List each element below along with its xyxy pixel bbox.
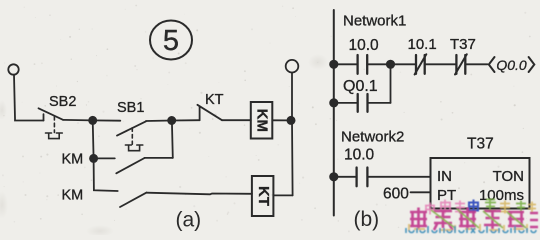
wire contact I0.1 to contact T37 [425, 63, 457, 65]
contact I0.0 bars [358, 55, 368, 74]
watermark [406, 200, 538, 234]
terminal left [8, 64, 18, 74]
node D junction [90, 155, 97, 162]
wire SB1 to node B [146, 120, 172, 123]
wire rung1 to contact I0.0 [334, 63, 358, 65]
SB1 pushbutton actuator [125, 145, 142, 151]
wire node E to contact I0.1 [391, 63, 417, 65]
ladder left power rail [333, 10, 335, 216]
node rung1 junction [330, 61, 337, 68]
contact KM2 blade [120, 193, 147, 207]
wire branch up to node E [390, 64, 392, 103]
svg-text:(a): (a) [176, 209, 202, 232]
coil KT box [252, 176, 274, 216]
timer T37 box [431, 158, 530, 209]
wire KT contact to coil KM [222, 119, 251, 121]
svg-text:600: 600 [383, 186, 409, 203]
wire from left terminal [14, 75, 44, 121]
wire contact T37 to coil Q0.0 [465, 63, 487, 65]
contact KM1 blade [116, 158, 144, 173]
svg-text:T37: T37 [467, 136, 494, 153]
svg-text:Q0.0: Q0.0 [496, 57, 527, 73]
coil Q0.0 [489, 57, 535, 73]
svg-text:KM: KM [254, 109, 271, 132]
svg-text:(b): (b) [354, 208, 380, 231]
svg-text:KM: KM [62, 188, 84, 204]
wire node B to KT contact [172, 119, 200, 121]
contact I0.1 NC slash [415, 54, 427, 74]
wire contact Q0.1 right [368, 102, 391, 104]
svg-text:T37: T37 [450, 36, 476, 53]
node C junction [287, 117, 294, 124]
svg-text:Network1: Network1 [343, 13, 406, 30]
SB2 pushbutton actuator [46, 133, 63, 139]
contact Q0.1 bars [358, 94, 368, 112]
contact I0.1 NC bars [416, 55, 425, 74]
wire 600 to PT [411, 191, 431, 193]
svg-text:SB2: SB2 [49, 94, 76, 110]
svg-text:KT: KT [205, 92, 224, 108]
svg-text:KT: KT [255, 186, 272, 206]
node rung2 junction [330, 173, 337, 180]
wire contact I0.0 to timer T37 IN [367, 176, 430, 178]
contact I0.0 network2 bars [357, 168, 368, 187]
contact T37 NC slash [455, 54, 467, 74]
svg-text:10.1: 10.1 [408, 36, 437, 53]
SB2 actuator dashed link [53, 117, 55, 133]
wire coil KM to node C [272, 119, 291, 121]
svg-text:10.0: 10.0 [344, 147, 375, 164]
svg-text:10.0: 10.0 [349, 37, 380, 54]
wire right rail [291, 73, 294, 196]
node rung1b junction [330, 99, 337, 106]
contact SB1 blade [117, 121, 146, 135]
wire rung2 to contact I0.0 [334, 176, 357, 178]
contact T37 NC bars [456, 55, 465, 74]
node E junction [387, 61, 394, 68]
wire KM1 contact left [94, 157, 115, 159]
svg-text:SB1: SB1 [117, 100, 144, 116]
contact KT fixed terminal tick [199, 107, 201, 120]
SB1 actuator dashed link [131, 128, 133, 144]
wire contact I0.0 to node E [367, 63, 390, 65]
svg-text:5: 5 [163, 25, 179, 57]
wire node D down [94, 158, 118, 191]
wire KM1 contact right [145, 157, 173, 159]
wire SB2 to node A [63, 119, 93, 122]
contact SB2 blade [39, 108, 64, 120]
svg-text:Q0.1: Q0.1 [343, 78, 378, 95]
figure number 5 [150, 21, 192, 60]
wire branch to contact Q0.1 [334, 102, 358, 104]
svg-text:100ms: 100ms [479, 187, 524, 204]
contact KT blade [197, 105, 222, 120]
wire node A down [92, 120, 95, 158]
wire node A to SB1 [93, 119, 121, 121]
svg-text:TON: TON [493, 168, 524, 185]
svg-text:IN: IN [437, 168, 452, 185]
svg-text:KM: KM [62, 152, 84, 168]
wire KM2 contact to coil KT [147, 193, 252, 195]
coil KM box [251, 102, 272, 139]
terminal right [286, 60, 299, 73]
svg-text:Network2: Network2 [341, 129, 404, 146]
wire KM1 up to node B [171, 121, 174, 158]
svg-text:PT: PT [437, 187, 456, 204]
contact SB2 fixed terminal tick [43, 114, 45, 120]
node B junction [168, 117, 175, 124]
wire coil KT to right rail [273, 194, 292, 196]
node A junction [89, 117, 96, 124]
